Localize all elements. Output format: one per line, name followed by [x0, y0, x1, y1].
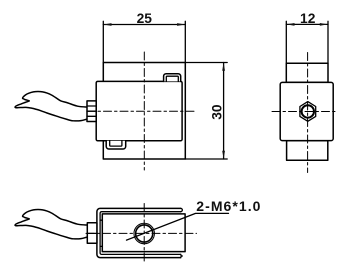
clip bottom (front view) [106, 141, 126, 149]
centerline horizontal (front view) [87, 110, 197, 112]
svg-text:30: 30 [209, 104, 224, 120]
dimension 25: extension lines [103, 21, 185, 62]
bottom view band outer outline [97, 208, 181, 257]
bottom view band inner outline [100, 212, 181, 255]
centerline vertical (bottom view) [143, 204, 145, 264]
cable gland (bottom view) [87, 223, 97, 244]
leader line for 2-M6*1.0 [127, 213, 229, 240]
clip top inner line [166, 76, 178, 81]
centerline vertical (front view) [143, 52, 145, 170]
centerline vertical (side view) [307, 53, 309, 173]
bottom view band right end caps [181, 208, 183, 257]
dimension 30: extension lines [185, 63, 227, 160]
bottom view left nub top [100, 219, 102, 221]
cable gland (front view) [87, 101, 96, 122]
dimension 30: dimension line [223, 63, 225, 160]
hex circle [302, 105, 314, 117]
bottom view left nub bottom [100, 245, 102, 247]
centerline horizontal (side view) [272, 111, 338, 113]
hole circle inner [136, 225, 153, 242]
side view top section [286, 63, 328, 82]
dimension 30: top arrow [222, 63, 225, 71]
side view middle band [280, 82, 333, 140]
gland mid line (bottom view) [87, 232, 97, 234]
centerline horizontal (bottom view) [86, 232, 197, 234]
cable (front view) [15, 92, 87, 121]
dimension 12: left arrow [287, 23, 295, 26]
hole circle outer (thread) [134, 223, 155, 244]
dimension 30: bottom arrow [222, 151, 225, 159]
clip top (front view) [164, 74, 181, 82]
clip bottom inner line [110, 141, 122, 146]
gland rib lines (front view) [87, 106, 96, 116]
svg-text:2-M6*1.0: 2-M6*1.0 [196, 198, 261, 214]
cable (bottom view) [15, 210, 87, 239]
bottom view body face [102, 214, 185, 252]
hex nut (side view) [300, 102, 316, 122]
side view bottom section [287, 141, 328, 161]
dimension 12: right arrow [320, 23, 328, 26]
cover band (front view) [96, 81, 182, 140]
dimension 25: left arrow [104, 23, 112, 26]
dimension 12: extension lines [286, 21, 328, 63]
body outline (front view) [103, 63, 185, 160]
dimension 25: dimension line [103, 24, 185, 26]
dimension 12: dimension line [286, 23, 328, 25]
dimension 25: right arrow [177, 23, 185, 26]
svg-text:12: 12 [300, 11, 316, 26]
svg-text:25: 25 [137, 11, 153, 26]
